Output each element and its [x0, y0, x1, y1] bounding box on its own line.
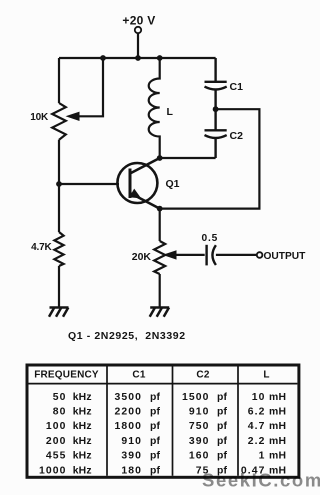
wire cap to output — [216, 254, 257, 256]
table frame — [27, 365, 299, 477]
wire top rail — [59, 57, 216, 59]
svg-text:mH: mH — [269, 421, 286, 432]
svg-text:200: 200 — [46, 436, 67, 447]
svg-text:L: L — [263, 369, 269, 380]
wire 20K lower lead — [159, 274, 161, 307]
svg-text:4.7: 4.7 — [248, 421, 266, 432]
svg-text:FREQUENCY: FREQUENCY — [34, 369, 99, 380]
capacitor C1 — [205, 58, 227, 109]
svg-text:1: 1 — [259, 451, 266, 462]
table header row — [34, 369, 269, 380]
svg-text:pf: pf — [217, 421, 228, 432]
svg-text:mH: mH — [269, 392, 286, 403]
wire left branch lower — [58, 266, 60, 307]
wire feedback from C1/C2 junction to emitter — [160, 109, 260, 208]
svg-text:pf: pf — [150, 407, 161, 418]
svg-text:mH: mH — [269, 451, 286, 462]
transistor Q1 — [117, 158, 159, 209]
svg-text:Q1 - 2N2925, 2N3392: Q1 - 2N2925, 2N3392 — [68, 330, 186, 342]
svg-text:2.2: 2.2 — [248, 436, 266, 447]
svg-text:kHz: kHz — [73, 392, 92, 403]
node emitter junction — [157, 206, 163, 212]
svg-text:pf: pf — [217, 392, 228, 403]
node base junction — [56, 181, 62, 187]
capacitor C2 — [205, 109, 227, 158]
wire base lead — [59, 183, 119, 185]
inductor L — [149, 58, 160, 158]
ground left — [49, 308, 69, 317]
svg-text:455: 455 — [46, 451, 67, 462]
svg-text:6.2: 6.2 — [248, 407, 266, 418]
svg-text:10K: 10K — [30, 112, 49, 123]
output terminal — [257, 252, 263, 258]
wire wiper to coupling cap — [176, 254, 205, 256]
svg-text:1800: 1800 — [114, 421, 142, 432]
svg-text:4.7K: 4.7K — [31, 242, 52, 253]
svg-text:Q1: Q1 — [166, 178, 180, 190]
svg-text:C2: C2 — [230, 130, 244, 142]
svg-text:160: 160 — [189, 451, 210, 462]
svg-text:3500: 3500 — [114, 392, 142, 403]
svg-text:0.5: 0.5 — [202, 233, 219, 244]
svg-text:kHz: kHz — [73, 421, 92, 432]
wire supply lead — [137, 33, 139, 58]
node rail-supply junction — [135, 55, 141, 61]
svg-text:910: 910 — [189, 407, 210, 418]
20K wiper arrow — [163, 250, 177, 259]
svg-text:100: 100 — [46, 421, 67, 432]
svg-text:pf: pf — [217, 407, 228, 418]
svg-text:kHz: kHz — [73, 407, 92, 418]
svg-text:pf: pf — [150, 451, 161, 462]
svg-text:C2: C2 — [196, 369, 209, 380]
svg-text:50: 50 — [53, 392, 67, 403]
node collector-tank junction — [157, 155, 163, 161]
resistor 10K (potentiometer body) — [52, 103, 66, 140]
svg-text:80: 80 — [53, 407, 67, 418]
svg-text:mH: mH — [269, 407, 286, 418]
10K wiper arrow — [66, 112, 80, 121]
svg-text:1500: 1500 — [182, 392, 210, 403]
svg-text:pf: pf — [217, 436, 228, 447]
ground under 20K — [150, 308, 170, 317]
svg-text:2200: 2200 — [114, 407, 142, 418]
svg-text:kHz: kHz — [73, 436, 92, 447]
resistor 4.7K — [54, 232, 63, 266]
wire 10K wiper arm — [79, 58, 103, 116]
svg-text:SeekIC.com: SeekIC.com — [202, 470, 320, 491]
svg-text:910: 910 — [121, 436, 142, 447]
node C1-C2 junction — [213, 106, 219, 112]
svg-text:OUTPUT: OUTPUT — [264, 251, 307, 262]
node rail-wiper junction — [100, 55, 106, 61]
capacitor 0.5 coupling — [207, 245, 216, 266]
wire left branch upper — [58, 58, 60, 103]
svg-text:20K: 20K — [132, 251, 152, 263]
+20V supply terminal — [135, 27, 141, 33]
svg-text:L: L — [167, 106, 174, 118]
Q1 emitter arrow — [129, 189, 141, 199]
wire left branch middle — [58, 140, 60, 232]
table data rows — [39, 392, 286, 477]
svg-text:390: 390 — [121, 451, 142, 462]
svg-text:10: 10 — [252, 392, 266, 403]
svg-text:pf: pf — [150, 392, 161, 403]
svg-text:+20 V: +20 V — [122, 14, 155, 28]
svg-text:mH: mH — [269, 436, 286, 447]
svg-text:C1: C1 — [132, 369, 145, 380]
resistor 20K (potentiometer body) — [154, 241, 165, 274]
svg-text:kHz: kHz — [73, 465, 92, 476]
svg-text:pf: pf — [217, 451, 228, 462]
svg-text:180: 180 — [121, 465, 142, 476]
wire tank bottom rail — [160, 157, 216, 159]
svg-text:pf: pf — [150, 465, 161, 476]
svg-text:750: 750 — [189, 421, 210, 432]
svg-text:C1: C1 — [230, 81, 244, 93]
svg-text:1000: 1000 — [39, 465, 67, 476]
svg-text:kHz: kHz — [73, 451, 92, 462]
node rail-L junction — [157, 55, 163, 61]
svg-text:pf: pf — [150, 436, 161, 447]
svg-text:pf: pf — [150, 421, 161, 432]
svg-text:390: 390 — [189, 436, 210, 447]
wire emitter branch — [159, 209, 161, 241]
